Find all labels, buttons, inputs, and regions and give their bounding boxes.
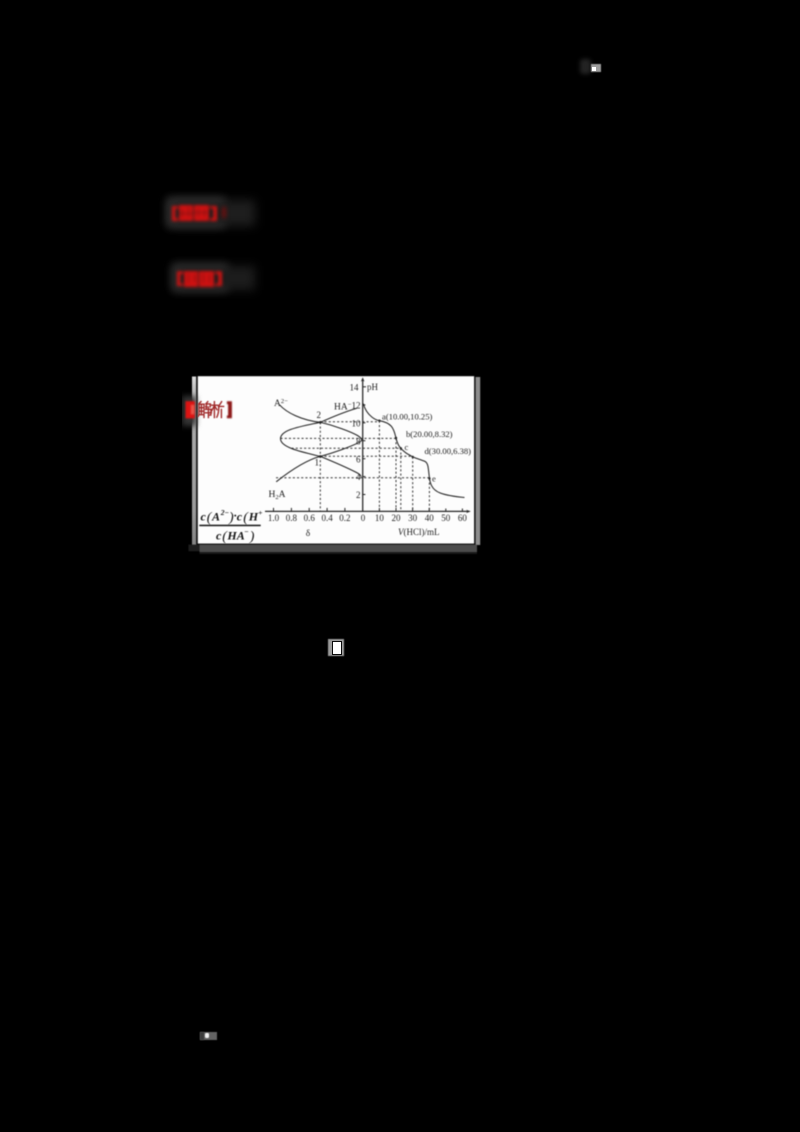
analysis label halo (dark grey) — [172, 264, 228, 291]
svg-text:12: 12 — [352, 401, 361, 411]
svg-text:d(30.00,6.38): d(30.00,6.38) — [425, 446, 472, 456]
grey halo behind bracket — [182, 396, 196, 426]
dashed vline at c — [400, 448, 402, 511]
curve H2A distribution sigmoid — [276, 440, 362, 482]
svg-text:40: 40 — [425, 513, 435, 523]
formula fraction bar — [199, 525, 260, 527]
red label 【解析】 on chart — [182, 396, 232, 426]
point d dot — [412, 456, 414, 458]
svg-text:50: 50 — [441, 513, 451, 523]
svg-text:c: c — [216, 528, 222, 542]
point b dot — [395, 437, 397, 439]
answer label halo (dark grey) — [167, 198, 225, 227]
dashed vline at a V=10 — [378, 421, 380, 511]
bottom-left tiny camera icon left darker part — [200, 1032, 205, 1040]
point 2 dot — [319, 421, 322, 424]
bracket 【 bright red on black — [186, 401, 195, 418]
svg-text:60: 60 — [458, 513, 468, 523]
svg-text:6: 6 — [356, 454, 361, 464]
svg-text:0.6: 0.6 — [304, 513, 316, 523]
analysis label halo faint wide — [175, 266, 255, 290]
bottom dark strip — [200, 545, 478, 553]
dashed hline pH4 H2A-tip to e — [276, 477, 429, 479]
x axis — [265, 510, 469, 512]
svg-text:0: 0 — [361, 513, 366, 523]
x axis ticks — [274, 508, 463, 512]
bracket 】 dark red on white — [227, 401, 232, 418]
dashed vline at e V=40 — [428, 478, 430, 511]
svg-text:c: c — [237, 510, 243, 524]
svg-text:8: 8 — [356, 436, 361, 446]
dashed hline pH6.38 point1 to d — [320, 455, 412, 457]
bottom-left tiny camera icon dark part — [200, 1032, 217, 1040]
svg-text:14: 14 — [350, 382, 360, 392]
point c dot — [400, 447, 402, 449]
y axis pH — [362, 380, 364, 512]
svg-text:0.2: 0.2 — [339, 513, 350, 523]
red label 【答案】 blurred blob — [171, 205, 173, 221]
left black border line — [196, 376, 198, 543]
svg-text:HA: HA — [226, 528, 244, 542]
top-right tiny page icon inner white square — [592, 67, 596, 71]
svg-text:A: A — [211, 510, 220, 524]
svg-text:1: 1 — [315, 458, 320, 468]
point 1 dot — [319, 455, 322, 458]
bottom-left tiny camera icon white dot — [205, 1033, 210, 1038]
top-right tiny page icon — [591, 64, 601, 73]
dashed vline at delta 0.5 through points 2 and 1 — [319, 422, 321, 511]
svg-text:20: 20 — [392, 513, 402, 523]
svg-text:−: − — [244, 527, 248, 536]
svg-text:10: 10 — [352, 418, 362, 428]
mid-page icon inner white rect with black border — [332, 641, 342, 655]
svg-text:pH: pH — [367, 382, 379, 392]
x axis arrowhead — [466, 510, 471, 513]
svg-text:0.4: 0.4 — [321, 513, 333, 523]
svg-text:b(20.00,8.32): b(20.00,8.32) — [406, 429, 453, 439]
svg-text:H: H — [248, 510, 259, 524]
point a dot — [378, 420, 380, 422]
white panel — [198, 376, 474, 543]
svg-text:10: 10 — [375, 513, 385, 523]
curve A2- distribution sigmoid — [280, 405, 362, 441]
pH titration curve — [363, 404, 464, 498]
top-right tiny page icon smudge — [580, 59, 591, 74]
svg-text:δ: δ — [306, 529, 311, 539]
svg-text:2: 2 — [317, 410, 322, 420]
formula numerator c(A2-)·c(H+ — [199, 508, 262, 545]
dashed hline pH8.32 lens-left to b — [281, 437, 397, 439]
bracket 【 inner light notch — [191, 405, 195, 415]
dashed vline at b V=20 — [395, 438, 397, 511]
red label 【解析】 blurred blob — [176, 270, 178, 286]
svg-text:0.8: 0.8 — [286, 513, 298, 523]
char 析 strokes — [212, 402, 224, 418]
point e dot — [428, 477, 430, 479]
right grey edge strip — [476, 377, 481, 545]
svg-text:c: c — [201, 510, 207, 524]
svg-text:+: + — [258, 508, 262, 517]
svg-text:V(HCl)/mL: V(HCl)/mL — [398, 527, 440, 537]
y axis arrowhead — [361, 377, 365, 381]
dashed hline pH7.2 to c — [292, 447, 401, 449]
bottom dark strip shadow left — [189, 545, 200, 552]
answer label halo faint wide — [170, 200, 255, 226]
faint red mark after answer label — [222, 207, 227, 218]
mid-page small image placeholder icon — [328, 639, 345, 656]
right black border line — [474, 377, 475, 544]
svg-text:4: 4 — [356, 472, 361, 482]
y axis ticks — [363, 387, 366, 495]
chart photo block — [182, 367, 486, 561]
svg-text:e: e — [432, 474, 436, 484]
dashed hline pH10.25 point2 to a — [320, 421, 379, 423]
svg-text:): ) — [249, 529, 255, 544]
char 解 strokes — [198, 402, 211, 418]
svg-text:2: 2 — [356, 490, 361, 500]
curve HA- bell — [281, 408, 362, 477]
svg-text:1.0: 1.0 — [268, 513, 280, 523]
bottom dark strip faint fringe — [200, 552, 478, 554]
dashed vline at d V=30 — [412, 457, 414, 511]
svg-text:c: c — [405, 442, 409, 452]
svg-text:30: 30 — [408, 513, 418, 523]
svg-text:a(10.00,10.25): a(10.00,10.25) — [382, 412, 432, 422]
